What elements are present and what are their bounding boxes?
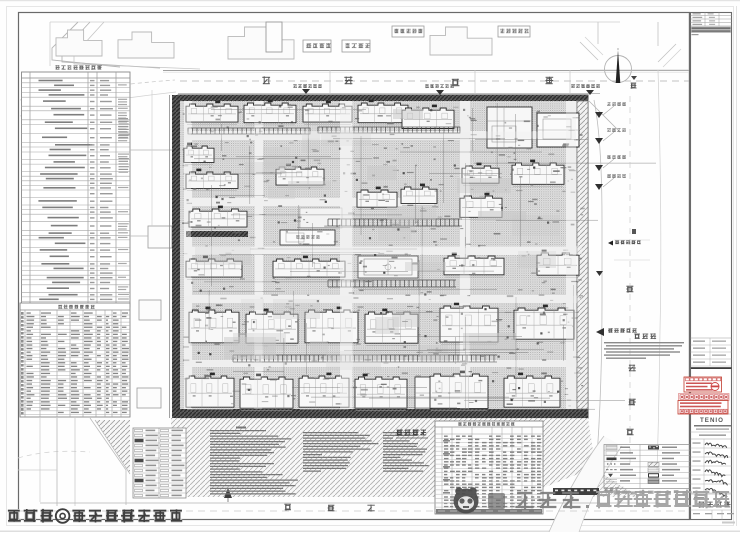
entrance label 2	[425, 84, 429, 88]
watermark panda logo	[454, 487, 479, 513]
entrance label 1	[293, 84, 297, 88]
building A4	[358, 103, 408, 123]
fire entrance mark	[596, 328, 604, 336]
building A1	[186, 104, 238, 122]
pergola band mid1	[327, 219, 329, 226]
title block column	[691, 13, 732, 520]
main entrance right	[608, 241, 613, 246]
north compass	[605, 56, 632, 83]
commercial F	[280, 230, 335, 245]
building A2	[244, 103, 296, 123]
bottom-center table	[435, 421, 543, 514]
connector line	[130, 149, 176, 151]
site boundary band right	[577, 101, 588, 409]
label box 4	[498, 26, 530, 37]
top road centerline	[180, 80, 689, 82]
building C3	[512, 163, 564, 184]
building J5	[430, 374, 488, 408]
label box 1	[303, 40, 331, 52]
building H3	[444, 256, 504, 275]
sport court center	[358, 256, 418, 278]
notes heading	[236, 427, 246, 429]
notes column 1	[210, 430, 266, 431]
hatch-sample legend	[604, 445, 690, 489]
entrance label 3	[571, 84, 575, 88]
building B2	[186, 172, 238, 188]
building I5	[440, 306, 498, 342]
line network	[183, 103, 656, 409]
site boundary band left	[172, 95, 180, 418]
tonal patches	[195, 109, 560, 370]
svg-text:TENIO: TENIO	[700, 417, 724, 424]
outside hatch left	[18, 418, 171, 500]
road name top	[262, 76, 270, 83]
building E2	[460, 196, 502, 217]
signature rows	[691, 447, 732, 449]
label box 3	[392, 26, 424, 37]
mid-left small block 3	[137, 388, 161, 408]
dark section bar	[553, 488, 599, 495]
right road chamfers	[588, 100, 620, 132]
jiantu note	[634, 334, 640, 339]
site boundary band top	[178, 95, 588, 101]
building D1	[357, 190, 397, 207]
building A5	[402, 108, 454, 129]
building J1	[186, 376, 234, 407]
drawing title small	[396, 429, 402, 436]
pergola band top	[188, 128, 310, 134]
building A7 box (kindergarten)	[537, 113, 579, 147]
right road small ticks	[614, 239, 650, 241]
curved road top-left	[52, 22, 120, 67]
bottom legend table	[133, 428, 186, 498]
notes column 2	[303, 432, 359, 433]
building A6 block	[487, 107, 532, 148]
intersection chamfers	[580, 42, 598, 60]
annotation specks	[182, 104, 585, 407]
building H1	[186, 259, 242, 277]
neighbour area boundary	[50, 21, 620, 23]
road tick lines	[329, 70, 331, 94]
extra road marks right	[596, 271, 603, 276]
narrow tall building	[415, 377, 432, 409]
left table 2 (unit mix)	[20, 303, 130, 417]
right road vertical edges north	[597, 22, 599, 44]
small tower outline	[266, 22, 282, 52]
building B1	[184, 146, 214, 162]
building I2	[246, 312, 298, 343]
plaza square	[300, 208, 342, 228]
mid-left small block 2	[139, 300, 161, 320]
dark band left mid	[186, 231, 248, 237]
legend footer row	[605, 490, 612, 492]
pergola band mid2	[327, 280, 329, 287]
watermark sohu bottom-left	[8, 509, 182, 523]
building H2	[273, 259, 345, 277]
watermark dark blob	[488, 493, 505, 509]
diagonal road band bottom-right	[549, 436, 622, 532]
building J4	[355, 377, 407, 408]
road name bottom	[284, 504, 291, 511]
building C2	[462, 166, 499, 183]
road overlays (clean)	[340, 101, 353, 409]
title block dense band	[691, 27, 731, 34]
table bottom dark row	[436, 509, 542, 514]
right edge entrance marks	[595, 112, 603, 118]
site boundary band bottom	[178, 409, 588, 418]
hatch right of site	[588, 418, 640, 497]
pergola band low	[232, 355, 234, 362]
building C1	[276, 167, 324, 185]
building I4	[365, 312, 418, 343]
building D2	[401, 187, 437, 203]
bottom-left hatch wedge	[95, 420, 130, 474]
red stamp 2	[678, 401, 728, 415]
road name right	[626, 286, 633, 293]
neighbour buildings	[56, 30, 102, 56]
building J2	[240, 377, 293, 408]
right notes text	[604, 342, 684, 343]
mid-left small block 1	[148, 226, 172, 248]
title block mid rows	[691, 337, 732, 339]
hatch under site	[171, 418, 588, 497]
building E1	[189, 209, 247, 227]
building I6	[514, 308, 574, 339]
building I1	[189, 310, 239, 343]
building I3	[305, 310, 358, 343]
top road edge lines	[163, 70, 689, 72]
left table 1 (economic indicators)	[22, 72, 131, 307]
title block top table	[691, 15, 732, 17]
internal ring road	[184, 131, 582, 140]
building H4	[537, 253, 579, 275]
building A3	[303, 104, 352, 122]
right road edges	[594, 100, 602, 470]
notes column 3	[383, 432, 412, 433]
title block bottom	[691, 493, 732, 495]
red stamp 1	[684, 377, 722, 392]
site ground texture	[178, 95, 588, 418]
bottom-left road lines	[39, 418, 41, 502]
north arrow symbol	[224, 488, 232, 498]
road char with arrow right	[631, 76, 637, 80]
label box 2	[342, 40, 370, 52]
red stamp sign row	[679, 394, 730, 401]
building J6	[504, 376, 560, 407]
building J3	[299, 376, 349, 407]
bottom road lines	[40, 502, 660, 504]
